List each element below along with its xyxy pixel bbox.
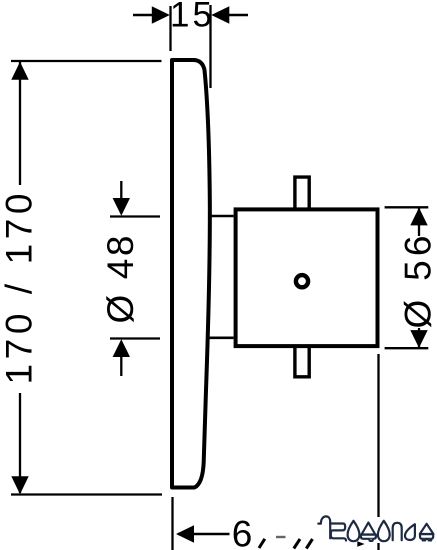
svg-text:6: 6 bbox=[232, 514, 253, 550]
sleeve top line bbox=[210, 215, 234, 218]
dim O48: bottom extension line bbox=[110, 337, 160, 339]
watermark letter V (B with curl) bbox=[318, 516, 346, 540]
dim 170/170: upper dim line bbox=[19, 62, 21, 185]
dim 170/170: lower dim line bbox=[19, 393, 21, 493]
dim 15: left arrowhead bbox=[152, 6, 170, 23]
watermark letter d (triangle 2) bbox=[420, 524, 434, 541]
dim O56: bottom arrowhead bbox=[410, 330, 427, 348]
dim 170/170: bottom arrowhead bbox=[11, 476, 28, 494]
bottom dim: mark dash bbox=[276, 536, 286, 538]
svg-text:Ø 48: Ø 48 bbox=[100, 236, 141, 324]
dim O48: top stub bbox=[120, 181, 122, 200]
escutcheon plate profile bbox=[172, 60, 210, 488]
bottom dim: mark comma 3 bbox=[306, 539, 312, 549]
dim 15: right arrowhead bbox=[211, 6, 229, 23]
watermark letter o (drop 2) bbox=[378, 521, 390, 541]
dim 170/170: top arrowhead bbox=[11, 62, 28, 80]
dim 15: right tail bbox=[227, 14, 248, 16]
bottom dim: right extension line lower bbox=[377, 543, 379, 550]
dim O48: top extension line bbox=[110, 215, 160, 217]
dim O56: lower dim line bbox=[418, 328, 420, 348]
top tab bbox=[295, 177, 309, 208]
bottom dim: right arrowhead remnant bbox=[357, 541, 364, 547]
dim 15: left extension line bbox=[169, 6, 171, 51]
dim 170/170: bottom extension line bbox=[11, 493, 162, 495]
center screw circle bbox=[296, 275, 308, 287]
handle body (square) bbox=[236, 209, 378, 346]
dim 170/170: top extension line bbox=[11, 60, 162, 62]
dim O48: bottom arrowhead bbox=[113, 339, 130, 357]
watermark letter o (drop 1) bbox=[348, 521, 360, 541]
dim 15: left tail bbox=[133, 14, 153, 16]
bottom dim: mark comma 1 bbox=[259, 539, 265, 548]
bottom dim: dim line bbox=[178, 533, 230, 535]
dim O56: upper dim line bbox=[418, 208, 420, 236]
dim O48: bottom stub bbox=[120, 356, 122, 376]
bottom dim: left arrowhead bbox=[176, 525, 194, 542]
bottom dim: left extension line bbox=[171, 497, 173, 550]
watermark letter a bbox=[405, 524, 415, 540]
bottom dim: right extension line upper bbox=[377, 354, 379, 517]
sleeve bottom line bbox=[207, 336, 234, 339]
dim O48: top arrowhead bbox=[113, 198, 130, 216]
dim 15: right extension line bbox=[209, 5, 211, 88]
watermark letter d (triangle 1) bbox=[361, 523, 376, 541]
bottom dim: mark comma 2 bbox=[294, 539, 300, 549]
dim O56: top extension line bbox=[385, 206, 429, 208]
svg-text:170 / 170: 170 / 170 bbox=[0, 194, 40, 385]
dim O56: bottom extension line bbox=[385, 347, 429, 349]
bottom tab bbox=[295, 347, 309, 377]
watermark letter p (arch) bbox=[393, 523, 402, 540]
dim O56: top arrowhead bbox=[410, 208, 427, 226]
